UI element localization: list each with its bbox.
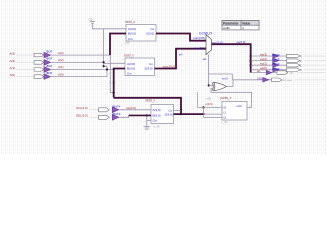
input port A(2) (10, 57, 64, 65)
svg-text:fadd_x: fadd_x (124, 54, 134, 58)
svg-text:Cin: Cin (153, 118, 158, 122)
adder U1 box (126, 25, 156, 42)
svg-text:B(3:0): B(3:0) (128, 32, 136, 36)
svg-text:A(3:0): A(3:0) (128, 27, 136, 31)
svg-text:OBUF: OBUF (272, 67, 280, 71)
svg-text:Co: Co (149, 62, 153, 66)
net riser x110 down to bus (110, 55, 113, 92)
output row C port (251, 69, 326, 75)
svg-text:OBUF: OBUF (272, 62, 280, 66)
parameter table (222, 21, 259, 30)
svg-text:eq(3:0): eq(3:0) (237, 40, 246, 44)
svg-text:Parameter: Parameter (223, 21, 239, 25)
svg-text:val(3:0): val(3:0) (126, 106, 136, 110)
wire to U4 I1 (204, 113, 223, 115)
bus SEL to U3 B (129, 114, 151, 116)
svg-text:C: C (291, 71, 293, 75)
wire U3 Cin to ground (147, 115, 151, 126)
output row EQ2 (250, 57, 326, 63)
svg-text:eq(0): eq(0) (260, 66, 267, 70)
wire to U4 I0 (198, 107, 223, 109)
svg-text:x_31: x_31 (221, 120, 228, 124)
svg-text:sum2(3:0): sum2(3:0) (163, 64, 177, 68)
svg-text:sum2(3:0): sum2(3:0) (194, 46, 208, 50)
svg-text:A(3): A(3) (58, 51, 64, 55)
svg-text:A(3): A(3) (10, 52, 16, 56)
svg-text:sel: sel (203, 57, 207, 61)
adder U2 pin labels (127, 62, 153, 76)
svg-text:S(3:0): S(3:0) (165, 112, 173, 116)
wire to U4 I2 (204, 116, 223, 118)
bus U2 B input (114, 69, 125, 98)
bus riser to U1 B (110, 34, 126, 56)
svg-text:eq(1): eq(1) (260, 62, 267, 66)
svg-text:IBUF: IBUF (46, 57, 53, 61)
bus U3 S to rip point (174, 113, 204, 115)
svg-text:IBUF: IBUF (46, 64, 53, 68)
input port A(0) (10, 71, 64, 80)
mux U5 trapezoid (206, 35, 212, 55)
wire A(2) (51, 61, 104, 63)
svg-text:A(3:0): A(3:0) (127, 62, 135, 66)
power symbol C0 (89, 17, 96, 23)
wire from power symbol to U1 pin A (93, 23, 127, 29)
wire sel branch to carry row (209, 74, 233, 80)
svg-text:Cin: Cin (127, 71, 132, 75)
svg-text:eq(2): eq(2) (260, 57, 267, 61)
svg-text:sum(3:0): sum(3:0) (193, 36, 205, 40)
svg-text:OBUF: OBUF (272, 53, 280, 57)
junction xor in1 (208, 84, 210, 86)
svg-text:IBUF: IBUF (46, 49, 53, 53)
svg-text:SEL(3:0): SEL(3:0) (76, 114, 88, 118)
svg-text:eq: eq (257, 69, 261, 73)
wire VAL to U3 A (119, 109, 151, 111)
svg-text:I1: I1 (224, 111, 227, 115)
output row EQ1 (250, 62, 326, 68)
bus main horizontal (114, 98, 181, 114)
input port SEL bus (76, 112, 121, 120)
svg-text:VAL(3:0): VAL(3:0) (76, 106, 88, 110)
ground symbol below U3 (144, 127, 151, 130)
svg-text:Co: Co (151, 27, 155, 31)
wire U3 Co to bus (174, 109, 182, 111)
parity U4 box (222, 101, 247, 120)
input port A(1) (10, 64, 64, 73)
adder U1 pin labels (128, 27, 155, 41)
wire A(1) (51, 69, 114, 71)
svg-text:x32: x32 (206, 97, 211, 101)
svg-text:A(0): A(0) (58, 72, 64, 76)
wire A(0) (51, 76, 108, 78)
svg-text:OBUF: OBUF (272, 58, 280, 62)
svg-text:Value: Value (242, 21, 251, 25)
wire xor output up (226, 80, 233, 87)
svg-text:x28: x28 (125, 41, 130, 45)
svg-text:A(2): A(2) (10, 59, 16, 63)
output row EQ3 (250, 52, 326, 58)
adder U2 box (125, 58, 155, 76)
input port VAL bus (76, 104, 121, 112)
svg-text:p(3:0): p(3:0) (205, 102, 212, 106)
svg-text:odd: odd (237, 104, 242, 108)
wire SEL jog (119, 115, 129, 117)
wire feedback riser to U4 I0 (197, 92, 199, 107)
svg-text:IBUF4: IBUF4 (113, 112, 121, 116)
adder U3 pin labels (153, 108, 173, 123)
adder U3 box (151, 105, 174, 124)
net riser x107 (106, 66, 108, 76)
svg-text:A(1): A(1) (10, 66, 16, 70)
net riser x103.5 to U2 A (104, 29, 125, 66)
svg-text:S(3:0): S(3:0) (145, 67, 153, 71)
parity U4 pin labels (224, 104, 242, 119)
svg-text:xor2: xor2 (222, 77, 228, 81)
svg-text:IBUF: IBUF (46, 71, 53, 75)
svg-text:eq(3:0): eq(3:0) (212, 40, 223, 44)
svg-text:sel: sel (179, 53, 183, 57)
input port A(3) (10, 49, 64, 57)
svg-text:I0: I0 (224, 106, 227, 110)
svg-text:fadd_x: fadd_x (146, 99, 156, 103)
svg-text:I2: I2 (224, 115, 227, 119)
wire mux sel down (208, 55, 210, 86)
svg-text:fadd_x: fadd_x (126, 20, 136, 24)
junction on U3 B wire (146, 114, 148, 116)
junction dots left risers (103, 61, 115, 94)
xor gate (212, 82, 226, 90)
bus mux output (212, 44, 251, 72)
svg-text:eq(3): eq(3) (260, 52, 267, 56)
junction dots bus (180, 106, 205, 115)
svg-text:parity_x: parity_x (220, 96, 232, 100)
svg-text:A(2): A(2) (58, 58, 64, 62)
wire xor in1 (209, 84, 214, 86)
svg-text:width: width (223, 26, 230, 30)
svg-text:A(3:0): A(3:0) (153, 108, 161, 112)
svg-text:A(1): A(1) (58, 65, 64, 69)
bus U2 S to mux in2 (155, 49, 207, 69)
bus U1 S to mux in1 (156, 34, 206, 41)
svg-text:B(3:0): B(3:0) (127, 67, 135, 71)
output row EQ0 (251, 66, 326, 72)
svg-text:x_30: x_30 (153, 125, 160, 129)
svg-text:A(0): A(0) (10, 73, 16, 77)
svg-text:IBUF4: IBUF4 (113, 104, 121, 108)
svg-text:carryout: carryout (281, 78, 292, 82)
svg-text:B(3:0): B(3:0) (153, 113, 161, 117)
net rip riser x203.5 (203, 108, 205, 118)
svg-text:C0: C0 (89, 17, 93, 21)
svg-text:S(3:0): S(3:0) (146, 32, 154, 36)
output row carryout (232, 76, 326, 82)
wire A(3) (51, 54, 111, 56)
wire xor in2 loop from U4 output (211, 88, 252, 107)
